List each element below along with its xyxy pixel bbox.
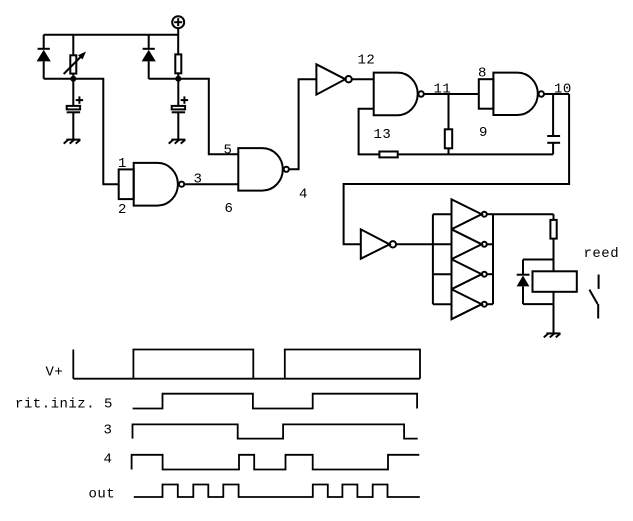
svg-text:V+: V+: [46, 365, 64, 381]
buffer output column: [487, 214, 493, 304]
wire pin 10 to inverter U6: [344, 94, 569, 244]
bubble U7c: [482, 272, 487, 277]
svg-text:1: 1: [118, 156, 127, 172]
svg-text:3: 3: [194, 172, 203, 188]
ground: [64, 140, 81, 144]
node A: [70, 76, 76, 82]
svg-text:4: 4: [299, 187, 308, 203]
nand gate U1: [134, 163, 178, 206]
svg-text:13: 13: [374, 127, 392, 143]
buffer U7b: [452, 229, 482, 259]
wire pin 11: [424, 93, 479, 95]
nand gate U2: [238, 148, 282, 191]
wire pin 4 up to inverter: [289, 79, 317, 169]
wire top bus: [44, 34, 179, 36]
bubble U7a: [482, 212, 487, 217]
bubble U2: [284, 167, 289, 172]
waveform out: [134, 485, 420, 498]
bubble U7b: [482, 242, 487, 247]
wire pin 10: [544, 93, 569, 95]
relay coil K1: [533, 271, 577, 292]
wire pin 3: [184, 183, 238, 185]
waveform V+: [73, 350, 420, 379]
waveform 3: [133, 424, 418, 438]
wire feedback pin 13: [359, 109, 380, 155]
wire: [149, 78, 179, 80]
power terminal +: [172, 16, 184, 28]
diode D1: [37, 35, 51, 79]
buffer U7a: [452, 199, 482, 229]
resistor R13: [379, 152, 397, 158]
bubble U4: [418, 91, 423, 96]
node B: [175, 76, 181, 82]
svg-text:3: 3: [104, 423, 113, 439]
svg-text:9: 9: [479, 125, 488, 141]
diode D3 freewheel: [517, 260, 554, 305]
bubble U5: [539, 91, 544, 96]
wire to relay resistor: [493, 213, 554, 215]
wire coil to ground: [553, 292, 555, 334]
wire: [44, 78, 74, 80]
svg-text:2: 2: [118, 202, 127, 218]
nand gate U5: [493, 73, 537, 115]
svg-text:8: 8: [478, 66, 487, 82]
ground: [544, 333, 561, 337]
wire node B to gate U2 pin 5: [178, 79, 238, 154]
capacitor C3: [547, 94, 560, 154]
ground: [169, 140, 186, 144]
svg-text:12: 12: [358, 53, 376, 69]
wire node A to gate U1 input: [73, 79, 118, 184]
reed switch: [589, 275, 598, 319]
svg-text:6: 6: [225, 201, 234, 217]
wire from + terminal down: [177, 28, 179, 54]
bubble U7d: [482, 302, 487, 307]
capacitor C2: [172, 79, 188, 140]
bubble U6: [390, 241, 396, 247]
wire bottom feedback: [398, 153, 553, 155]
wire inverter to U4: [352, 78, 374, 80]
bubble U1: [179, 182, 184, 187]
inverter U6: [361, 229, 390, 258]
svg-text:4: 4: [104, 452, 113, 468]
capacitor C1: [67, 79, 83, 140]
buffer U7c: [452, 259, 482, 289]
buffer input ladder: [433, 214, 452, 304]
wire to buffer bank: [396, 243, 451, 245]
bubble U3: [345, 76, 351, 82]
resistor R2 vertical: [445, 94, 452, 154]
waveform rit.iniz.5: [133, 394, 418, 409]
svg-text:out: out: [89, 487, 116, 503]
svg-text:reed: reed: [584, 246, 620, 262]
waveform 4: [132, 455, 420, 470]
nand gate U4: [374, 73, 418, 116]
buffer U7d: [452, 289, 482, 319]
nand U1 input box: [119, 169, 134, 199]
resistor R1: [175, 54, 181, 78]
variable resistor VR1: [64, 35, 86, 79]
resistor R3: [550, 214, 556, 271]
svg-text:5: 5: [224, 143, 233, 159]
svg-text:rit.iniz. 5: rit.iniz. 5: [15, 397, 113, 413]
nand U5 input box: [479, 79, 494, 109]
inverter U3: [316, 64, 345, 94]
diode D2: [142, 35, 156, 79]
